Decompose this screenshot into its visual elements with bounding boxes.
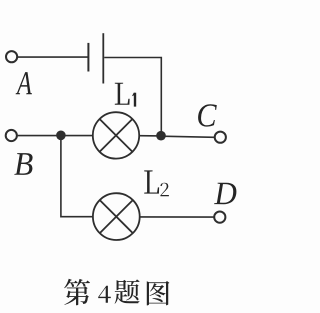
- wire junction down to L2 row: [61, 136, 93, 217]
- label D: [214, 183, 236, 204]
- caption: 4: [98, 286, 111, 303]
- junction node left: [56, 131, 66, 141]
- lamp L2: [93, 193, 140, 240]
- wire junction to lamp L1: [61, 135, 93, 137]
- wire B to junction: [18, 135, 61, 137]
- label L1 subscript 1: [132, 93, 136, 107]
- label L1: [115, 83, 130, 105]
- label B: [14, 153, 32, 175]
- caption: 题: [115, 279, 140, 303]
- wire battery to right corner: [104, 58, 161, 136]
- terminal A: [6, 51, 17, 62]
- label C: [198, 104, 217, 126]
- lamp L1: [93, 112, 139, 158]
- caption: 第: [64, 279, 90, 306]
- terminal B: [6, 130, 17, 141]
- label A: [16, 72, 32, 94]
- terminal D: [214, 212, 225, 223]
- wire junction to terminal C: [161, 136, 214, 137]
- junction node right: [156, 131, 166, 141]
- label L2: [144, 170, 159, 193]
- terminal C: [215, 132, 226, 143]
- wire lamp L2 to terminal D: [140, 216, 214, 218]
- label L2 subscript 2: [160, 183, 168, 197]
- wire A to battery: [18, 56, 88, 58]
- wire lamp L1 to junction right: [139, 135, 161, 137]
- battery: [88, 33, 103, 83]
- caption: 图: [147, 281, 170, 305]
